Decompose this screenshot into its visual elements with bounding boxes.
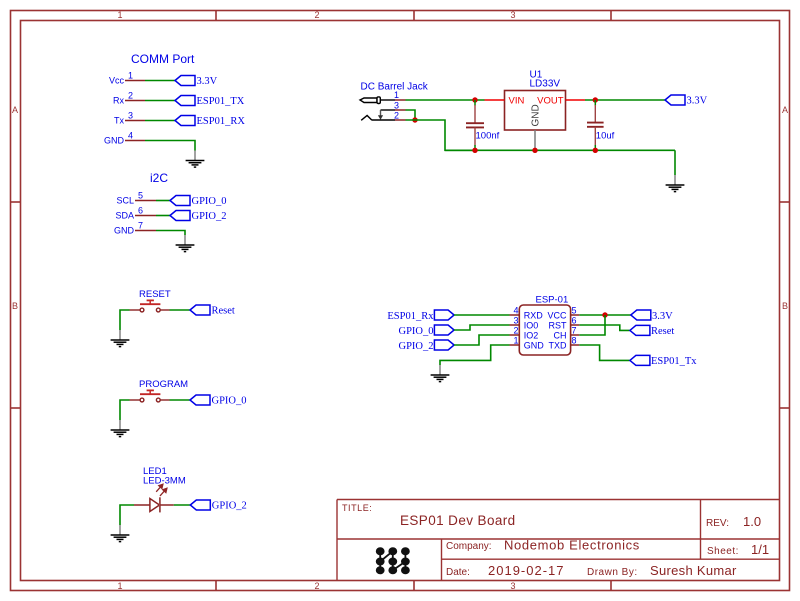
svg-text:2: 2 (513, 326, 518, 336)
wire to ground (120, 400, 130, 420)
svg-text:TITLE:: TITLE: (342, 503, 372, 513)
svg-text:1: 1 (513, 336, 518, 346)
regulator U1 box (505, 91, 566, 131)
junction VCC (602, 312, 607, 317)
LED D1 (134, 497, 174, 512)
svg-text:1: 1 (117, 10, 122, 20)
svg-text:B: B (12, 301, 18, 311)
wire Rx (145, 100, 175, 102)
junction C1 gnd (472, 148, 477, 153)
ground (666, 175, 685, 192)
net flag GPIO_2 (398, 340, 454, 352)
connector pin numbers (138, 191, 143, 231)
svg-text:GND: GND (104, 136, 125, 146)
svg-text:IO2: IO2 (524, 331, 539, 341)
svg-text:10uf: 10uf (596, 131, 615, 142)
wire TXD to ESP01_Tx (579, 345, 630, 360)
net flag ESP01_Rx (387, 310, 454, 322)
svg-text:B: B (782, 301, 788, 311)
wire VCC to 3.3V (579, 314, 631, 316)
ESP-01 U2 box (519, 305, 570, 355)
svg-text:GPIO_2: GPIO_2 (212, 501, 247, 512)
wire to flag (170, 309, 191, 311)
net flag ESP01_Tx (630, 355, 697, 367)
svg-text:GPIO_2: GPIO_2 (192, 211, 227, 222)
wire VOUT to flag (585, 99, 665, 101)
net flag 3.3V (175, 76, 218, 88)
svg-text:5: 5 (138, 191, 143, 201)
connector pin names (114, 196, 135, 236)
svg-text:COMM Port: COMM Port (131, 52, 195, 66)
svg-text:1: 1 (117, 581, 122, 591)
svg-text:7: 7 (138, 221, 143, 231)
wire pin2 down to rail (406, 120, 476, 150)
svg-text:ESP01_TX: ESP01_TX (197, 96, 245, 107)
pins left (510, 315, 520, 345)
svg-text:RESET: RESET (139, 289, 171, 300)
svg-text:Date:: Date: (446, 567, 470, 578)
jack J1 symbol (360, 97, 395, 120)
wire Tx (145, 120, 175, 122)
svg-text:5: 5 (572, 306, 577, 316)
svg-text:SCL: SCL (116, 196, 134, 206)
wire GPIO_2 to pin2 (454, 335, 509, 345)
jack pins (395, 100, 406, 120)
svg-text:VCC: VCC (547, 311, 567, 321)
connector P1 pin numbers (128, 71, 133, 141)
svg-text:Suresh Kumar: Suresh Kumar (650, 563, 737, 578)
svg-text:4: 4 (128, 131, 133, 141)
svg-text:i2C: i2C (150, 171, 168, 185)
connector P1 pins (125, 81, 145, 141)
svg-text:1.0: 1.0 (743, 514, 761, 529)
svg-text:Reset: Reset (212, 306, 235, 317)
junction (412, 117, 417, 122)
wire pin1 to ground (440, 345, 510, 365)
wire pin3 to pin2 (406, 110, 416, 120)
net flag GPIO_2 (190, 500, 247, 512)
net flag GPIO_0 (398, 325, 454, 337)
ground (111, 420, 130, 437)
svg-text:VIN: VIN (509, 96, 525, 107)
svg-text:GPIO_0: GPIO_0 (212, 396, 247, 407)
svg-text:ESP-01: ESP-01 (536, 295, 569, 306)
svg-text:100nf: 100nf (476, 131, 500, 142)
ground (176, 235, 195, 252)
svg-text:3: 3 (128, 111, 133, 121)
svg-text:Sheet:: Sheet: (707, 546, 739, 557)
ground (186, 151, 205, 168)
pin numbers (513, 306, 518, 346)
svg-text:GND: GND (114, 226, 135, 236)
svg-text:Rx: Rx (113, 96, 124, 106)
svg-text:Company:: Company: (446, 541, 492, 552)
svg-text:Nodemob Electronics: Nodemob Electronics (504, 538, 640, 553)
svg-text:6: 6 (138, 206, 143, 216)
svg-text:1/1: 1/1 (751, 542, 769, 557)
wire SDA (156, 215, 170, 217)
junction VOUT (593, 97, 598, 102)
svg-text:TXD: TXD (549, 341, 568, 351)
svg-text:PROGRAM: PROGRAM (139, 379, 188, 390)
wire rail to ground (674, 150, 676, 175)
junction U1 gnd (532, 148, 537, 153)
net flag 3.3V (665, 95, 708, 107)
svg-text:GPIO_2: GPIO_2 (398, 341, 433, 352)
svg-text:7: 7 (572, 326, 577, 336)
wire SCL (156, 200, 170, 202)
logo (377, 548, 409, 573)
svg-text:2: 2 (128, 91, 133, 101)
svg-text:GPIO_0: GPIO_0 (192, 196, 227, 207)
net flag ESP01_TX (175, 96, 245, 108)
svg-text:2: 2 (394, 111, 399, 121)
svg-text:4: 4 (513, 306, 518, 316)
svg-text:6: 6 (572, 316, 577, 326)
svg-text:RXD: RXD (524, 311, 544, 321)
net flag GPIO_0 (190, 395, 247, 407)
svg-text:3: 3 (513, 316, 518, 326)
wire to flag (170, 399, 191, 401)
net flag GPIO_2 (170, 211, 227, 223)
wire GND (156, 231, 185, 236)
pushbutton S1 (130, 300, 170, 312)
svg-text:GND: GND (531, 104, 542, 126)
svg-text:2: 2 (314, 10, 319, 20)
ground (111, 330, 130, 347)
ground rail (445, 149, 675, 151)
net flag Reset (190, 305, 235, 317)
wire GPIO_0 to pin3 (454, 325, 509, 330)
svg-text:3.3V: 3.3V (652, 311, 673, 322)
pin GND (534, 130, 536, 150)
net flag 3.3V (631, 310, 673, 322)
junction VIN (472, 97, 477, 102)
connector pins (135, 201, 156, 231)
wire CH to VCC (579, 315, 605, 335)
svg-text:SDA: SDA (115, 211, 134, 221)
svg-text:A: A (782, 105, 788, 115)
svg-text:2019-02-17: 2019-02-17 (488, 563, 565, 578)
svg-text:GND: GND (524, 341, 545, 351)
connector P1 pin names (104, 76, 125, 146)
net flag GPIO_0 (170, 196, 227, 208)
svg-text:ESP01 Dev Board: ESP01 Dev Board (400, 513, 516, 528)
svg-text:2: 2 (314, 581, 319, 591)
svg-text:RST: RST (549, 321, 568, 331)
pushbutton S2 (130, 390, 170, 402)
svg-text:IO0: IO0 (524, 321, 539, 331)
wire RST to Reset (579, 325, 630, 330)
svg-text:ESP01_RX: ESP01_RX (197, 116, 246, 127)
svg-text:LD33V: LD33V (530, 79, 561, 90)
capacitor C1 (466, 100, 500, 150)
svg-text:CH: CH (554, 331, 567, 341)
junction C2 gnd (593, 148, 598, 153)
svg-text:1: 1 (128, 71, 133, 81)
svg-text:LED-3MM: LED-3MM (143, 476, 186, 487)
capacitor C2 (587, 100, 615, 150)
title block text (342, 503, 769, 578)
ground (431, 365, 450, 382)
net flag ESP01_RX (175, 116, 245, 128)
svg-text:1: 1 (394, 90, 399, 100)
pins right (571, 315, 580, 345)
ground (111, 525, 130, 542)
wire GND (145, 141, 195, 151)
title block frame (337, 500, 780, 581)
svg-text:Reset: Reset (651, 326, 674, 337)
pin names (524, 311, 545, 351)
svg-text:3.3V: 3.3V (687, 96, 708, 107)
wire VIN rail (406, 99, 485, 101)
svg-text:Drawn By:: Drawn By: (587, 567, 638, 578)
svg-text:Vcc: Vcc (109, 76, 125, 86)
svg-text:3: 3 (510, 10, 515, 20)
pin VIN (485, 99, 505, 101)
svg-text:8: 8 (572, 336, 577, 346)
svg-text:3: 3 (510, 581, 515, 591)
LED D1 arrows (156, 484, 167, 496)
svg-text:ESP01_Tx: ESP01_Tx (651, 356, 697, 367)
svg-text:3.3V: 3.3V (197, 76, 218, 87)
jack pin numbers (394, 90, 399, 121)
wire Vcc (145, 80, 175, 82)
wire to ground (120, 310, 130, 330)
svg-text:ESP01_Rx: ESP01_Rx (387, 311, 434, 322)
svg-text:A: A (12, 105, 18, 115)
wire to flag (174, 504, 191, 506)
wire to ground (120, 505, 134, 525)
svg-text:Tx: Tx (114, 116, 124, 126)
wire ESP01_Rx to pin4 (454, 314, 509, 316)
pin VOUT (566, 99, 586, 101)
net flag Reset (630, 325, 675, 337)
svg-text:REV:: REV: (706, 518, 729, 529)
svg-text:GPIO_0: GPIO_0 (398, 326, 433, 337)
svg-text:3: 3 (394, 101, 399, 111)
